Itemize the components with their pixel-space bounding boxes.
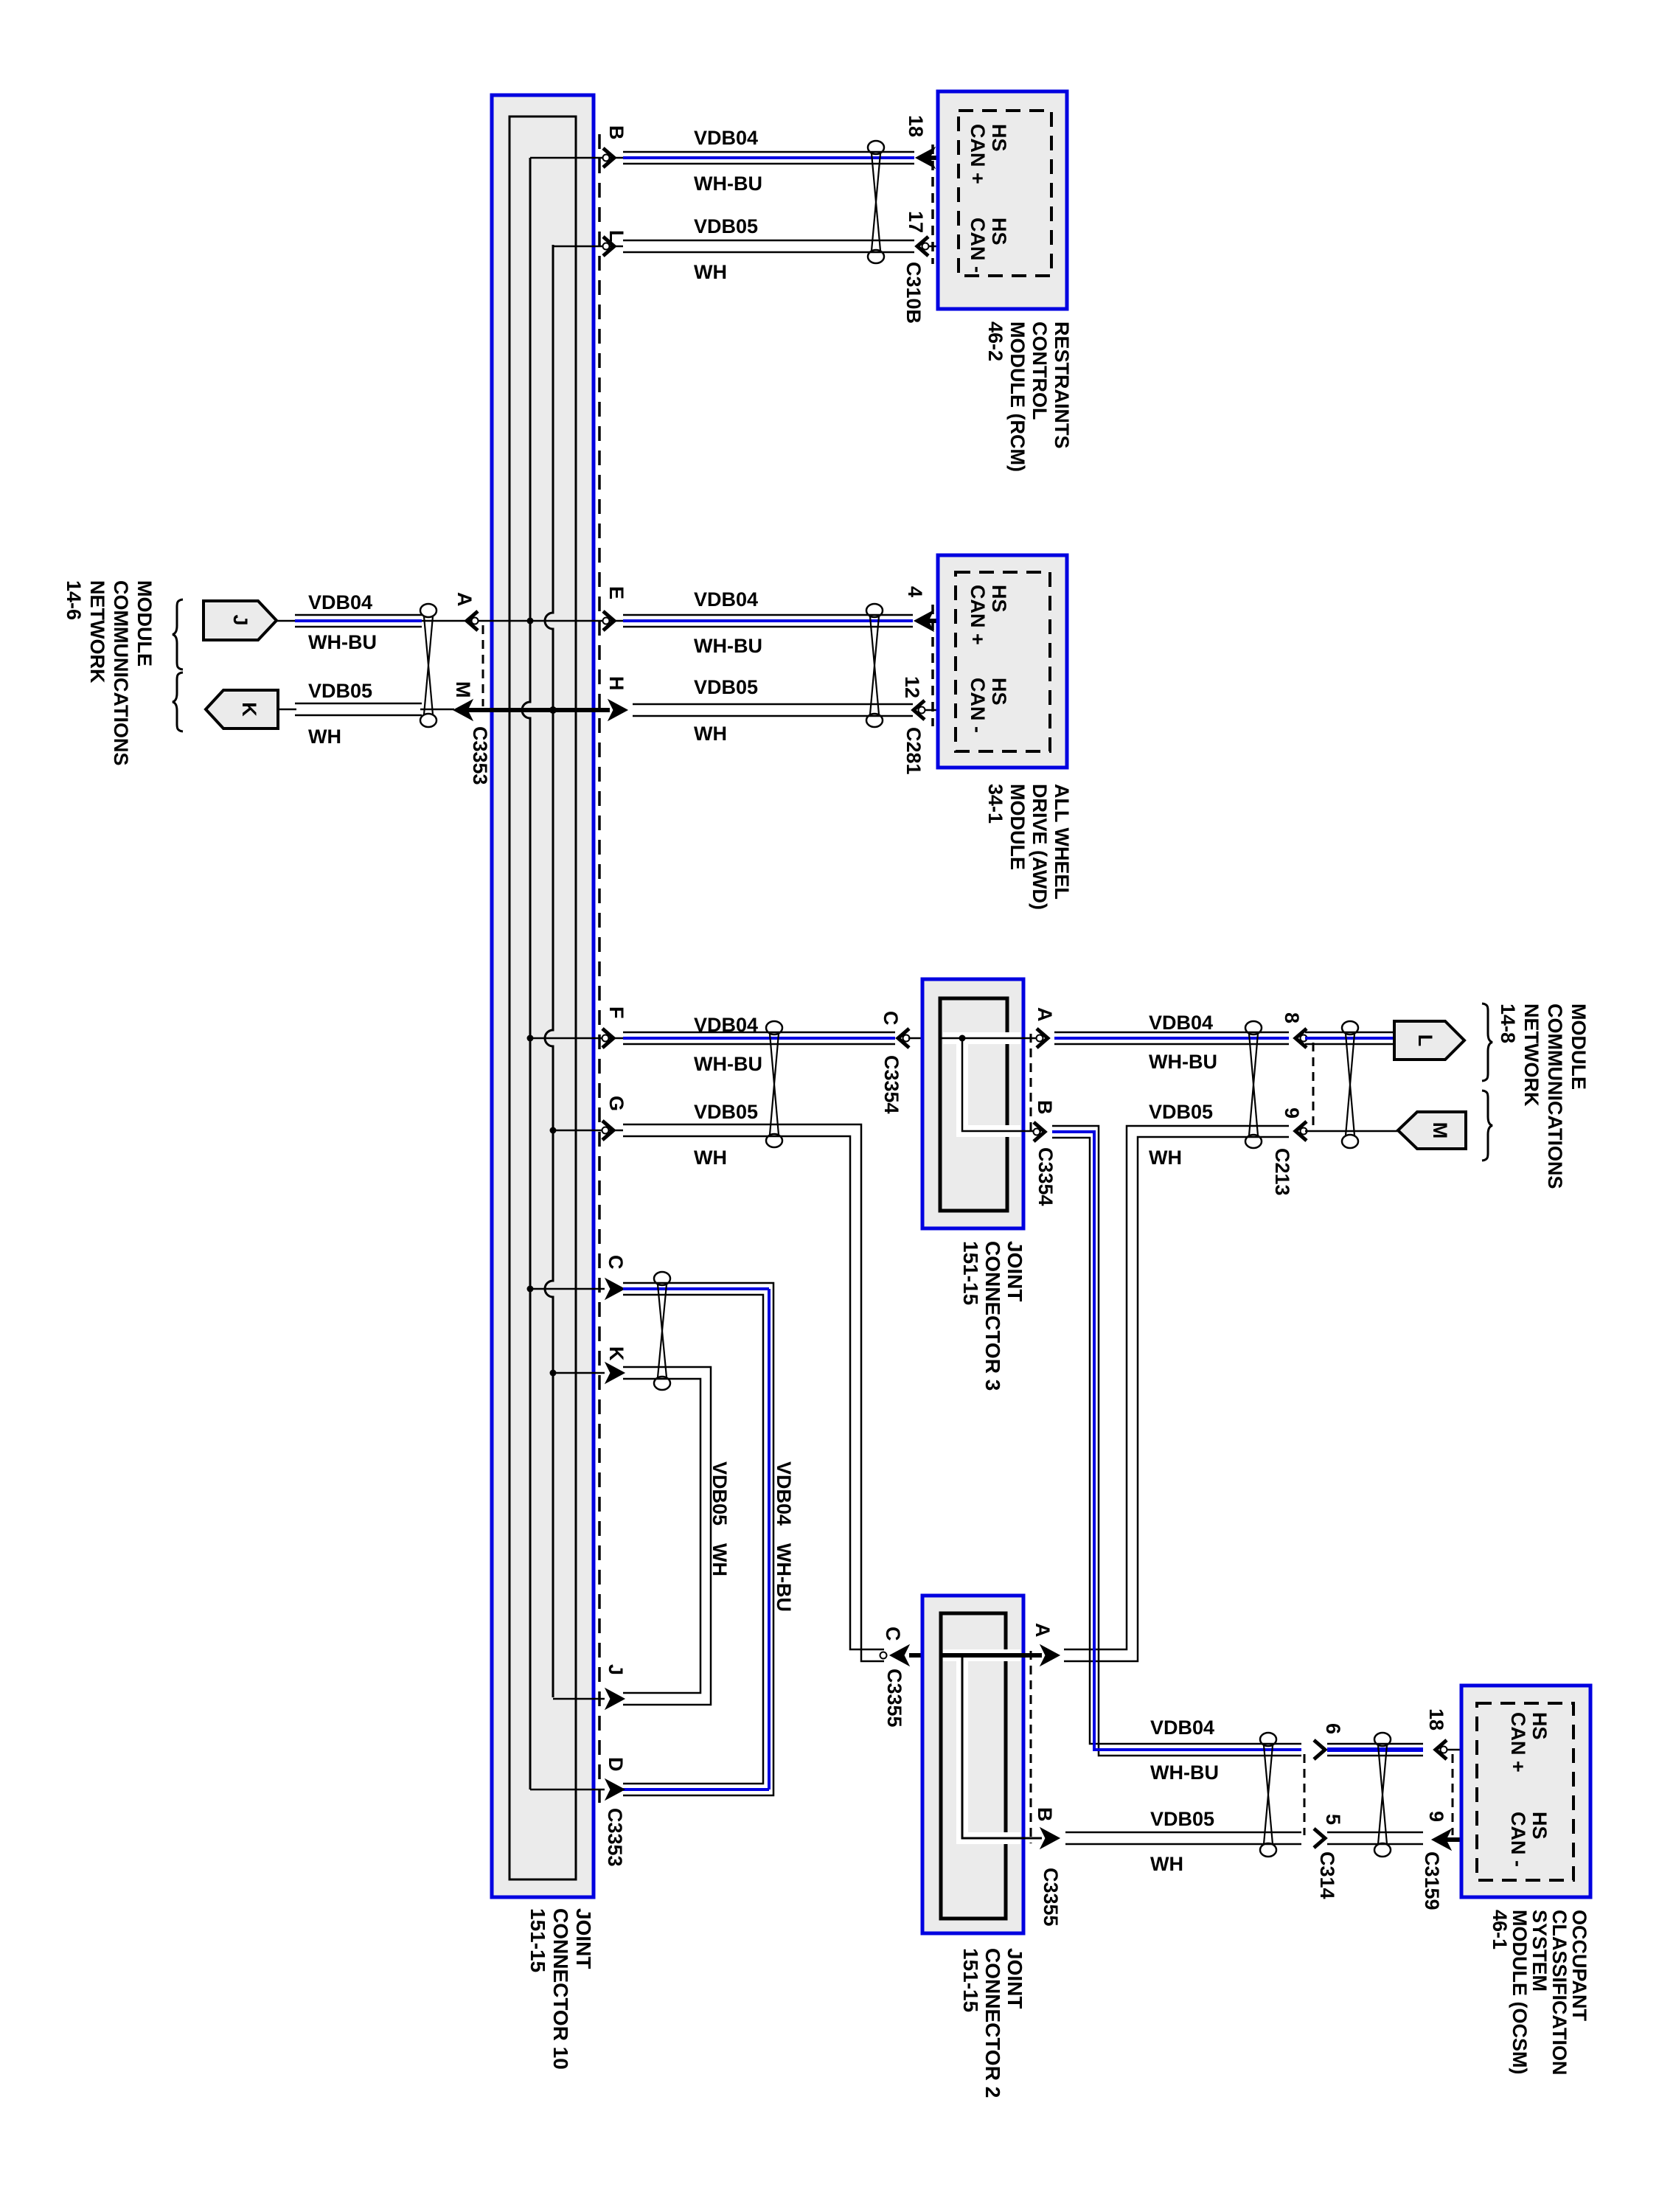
svg-text:B: B [605, 125, 627, 140]
svg-text:WH: WH [308, 726, 341, 748]
svg-text:C213: C213 [1271, 1148, 1293, 1196]
brace row J [173, 599, 183, 669]
svg-text:HS: HS [988, 218, 1010, 246]
svg-text:HS: HS [1528, 1812, 1551, 1840]
svg-text:46-1: 46-1 [1489, 1910, 1511, 1950]
wire VDB04 WH-BU pair C314 to OCSM pin 18 with heavy blue [1327, 1743, 1423, 1745]
svg-text:VDB04: VDB04 [773, 1461, 795, 1526]
joint connector 2 box [922, 1596, 1023, 1933]
JC3 internal bus white casing [943, 1032, 1020, 1044]
junction dot bus VDB05 x wire G [550, 1127, 557, 1134]
svg-text:C3354: C3354 [880, 1055, 902, 1114]
OCSM pin 9 arrow [1432, 1829, 1451, 1850]
svg-text:WH: WH [1149, 1147, 1182, 1169]
pin L chevron [603, 237, 614, 256]
wire from flag J [276, 620, 623, 622]
svg-text:HS: HS [988, 678, 1010, 706]
pin B chevron [603, 148, 614, 167]
connector C3355 dashed boundary right [1030, 1651, 1032, 1843]
svg-text:COMMUNICATIONS: COMMUNICATIONS [110, 580, 132, 765]
svg-text:WH-BU: WH-BU [1150, 1761, 1219, 1784]
svg-text:F: F [605, 1006, 627, 1019]
RCM pin 17 chevron [917, 237, 928, 256]
RCM pin 18 arrow [916, 147, 935, 168]
JC3 pin B chevron [1034, 1122, 1045, 1141]
svg-text:K: K [605, 1346, 627, 1361]
bus wire VDB04 (vertical, hops VDB05 wires) [522, 158, 530, 1790]
svg-text:34-1: 34-1 [984, 784, 1006, 824]
svg-text:HS: HS [1528, 1712, 1551, 1740]
joint connector 3 inner bar [940, 998, 1007, 1211]
svg-text:CLASSIFICATION: CLASSIFICATION [1548, 1910, 1571, 2076]
svg-text:12: 12 [901, 676, 923, 698]
svg-text:VDB04: VDB04 [1150, 1717, 1214, 1739]
pin F chevron [602, 1029, 613, 1048]
JC3 pin C chevron [898, 1029, 909, 1048]
svg-text:18: 18 [905, 115, 927, 137]
wire VDB04 bus pin F to JC3 [530, 1037, 623, 1040]
wire VDB05 bus pin L to RCM (single lead) [553, 246, 623, 248]
twisted pair symbol rows C/K [654, 1272, 670, 1285]
wire VDB04 WH-BU pair bus pin E to AWD pin 4 [623, 614, 913, 616]
svg-text:VDB04: VDB04 [694, 127, 758, 149]
pin D arrow at bus [530, 1789, 605, 1791]
twisted pair symbol rows J/K [420, 604, 437, 617]
wire VDB05 WH pair bus pin H to AWD pin 12 [633, 703, 913, 706]
svg-text:VDB05: VDB05 [308, 680, 372, 702]
svg-text:WH: WH [694, 261, 727, 283]
AWD connector dashed outline [956, 572, 1050, 751]
svg-text:5: 5 [1322, 1814, 1344, 1825]
wire VDB05 WH loop K to J [623, 1367, 711, 1705]
svg-text:C3353: C3353 [604, 1808, 626, 1867]
svg-text:OCCUPANT: OCCUPANT [1568, 1910, 1590, 2021]
svg-text:C3354: C3354 [1034, 1147, 1057, 1206]
C213 pin 8 chevron [1295, 1029, 1307, 1048]
joint connector 2 inner bar [941, 1613, 1006, 1919]
svg-text:C3355: C3355 [883, 1669, 905, 1728]
C314 pin 5 chevron [1314, 1829, 1325, 1848]
svg-text:RESTRAINTS: RESTRAINTS [1051, 321, 1073, 449]
svg-text:WH-BU: WH-BU [694, 635, 762, 657]
C314 pin 6 chevron [1314, 1740, 1325, 1759]
pin J arrow at bus [553, 1698, 605, 1700]
AWD pin 4 arrow [914, 611, 933, 631]
pin M arrow at C3353 [453, 700, 473, 720]
svg-text:C: C [605, 1255, 627, 1270]
connector C3353 dashed boundary (bus right side) [598, 134, 601, 1803]
svg-text:MODULE (RCM): MODULE (RCM) [1006, 321, 1029, 472]
brace row M [1482, 1091, 1492, 1161]
wire from flag K [276, 709, 296, 711]
OCSM connector dashed outline [1477, 1703, 1573, 1880]
wire VDB05 WH pair JC2 B to C314 pin 5 [1065, 1832, 1301, 1834]
svg-text:WH-BU: WH-BU [694, 1053, 762, 1075]
svg-text:J: J [605, 1664, 627, 1675]
wire VDB05 bus pin G lead [553, 1130, 623, 1132]
svg-text:K: K [238, 702, 260, 717]
svg-text:17: 17 [905, 211, 927, 233]
wire VDB04 WH-BU pair bus F to JC3 C [623, 1032, 895, 1034]
svg-text:MODULE: MODULE [1568, 1004, 1590, 1090]
wire single C213 to flag M [1305, 1130, 1398, 1133]
svg-text:B: B [1034, 1100, 1056, 1115]
wire VDB04 WH-BU pair flag J to C3353 [295, 614, 422, 616]
svg-text:J: J [229, 614, 251, 625]
svg-text:CONNECTOR 3: CONNECTOR 3 [981, 1241, 1004, 1391]
svg-text:VDB05: VDB05 [1149, 1101, 1213, 1123]
svg-text:L: L [1414, 1034, 1436, 1047]
svg-text:M: M [452, 681, 474, 698]
JC3 internal junction dot [959, 1035, 966, 1042]
pin E chevron [603, 611, 614, 630]
twisted pair symbol rows E/H [866, 604, 883, 617]
svg-text:C281: C281 [902, 727, 925, 775]
svg-text:B: B [1034, 1807, 1056, 1822]
junction dot bus VDB04 x wire A-E [527, 618, 534, 625]
wire VDB05 WH pair flag K to C3353 [295, 703, 422, 705]
svg-text:H: H [605, 676, 627, 691]
svg-text:CAN -: CAN - [967, 218, 989, 273]
svg-text:9: 9 [1281, 1107, 1303, 1119]
svg-text:4: 4 [904, 586, 926, 597]
svg-text:A: A [453, 592, 476, 607]
svg-text:G: G [605, 1096, 627, 1111]
svg-text:C: C [880, 1011, 902, 1026]
pin H arrow [608, 700, 627, 720]
twisted pair symbol rows 18/9 right [1374, 1733, 1391, 1746]
svg-text:M: M [1429, 1122, 1451, 1139]
svg-text:A: A [1034, 1007, 1056, 1022]
brace row K [173, 672, 183, 731]
twisted pair symbol rows A/M left of C213 [1245, 1021, 1262, 1034]
pin A chevron at C3353 [467, 611, 478, 630]
svg-text:VDB05: VDB05 [694, 215, 758, 237]
wire VDB05 thick through bus M to H [467, 708, 610, 712]
junction dot bus VDB05 x wire M-H [549, 706, 557, 714]
JC3 internal bus wire [942, 1037, 1043, 1040]
network flag M [1398, 1112, 1466, 1149]
svg-text:C314: C314 [1316, 1851, 1338, 1899]
restraints control module box [938, 91, 1067, 309]
svg-text:CAN +: CAN + [1507, 1712, 1529, 1773]
AWD pin 12 chevron [914, 700, 925, 720]
network flag J [204, 601, 276, 640]
junction dot bus VDB04 x wire F [527, 1035, 534, 1042]
twisted pair symbol right of C213 [1342, 1021, 1358, 1034]
svg-text:WH-BU: WH-BU [694, 173, 762, 195]
JC2 pin C arrow [880, 1652, 887, 1659]
joint connector 3 box [922, 979, 1023, 1228]
svg-text:NETWORK: NETWORK [1520, 1004, 1543, 1107]
pin G chevron [602, 1121, 613, 1140]
twisted pair symbol rows F/G [766, 1021, 782, 1034]
svg-text:CAN -: CAN - [967, 678, 989, 733]
network flag L [1394, 1021, 1464, 1060]
svg-text:JOINT: JOINT [572, 1908, 595, 1969]
svg-text:151-15: 151-15 [959, 1241, 982, 1305]
OCSM pin 18 chevron [1436, 1740, 1447, 1759]
pin K arrow at bus [553, 1372, 605, 1374]
svg-text:JOINT: JOINT [1004, 1948, 1026, 2008]
svg-text:CONNECTOR 2: CONNECTOR 2 [981, 1948, 1004, 2098]
JC2 pin A arrow [1040, 1645, 1060, 1666]
svg-text:6: 6 [1322, 1723, 1344, 1734]
svg-text:VDB05: VDB05 [694, 1101, 758, 1123]
svg-text:8: 8 [1281, 1012, 1303, 1023]
wire VDB05 WH pair bus G down to JC2 pin C [623, 1124, 884, 1661]
wire VDB05 WH pair to RCM pin 17 [623, 240, 914, 242]
svg-text:VDB04: VDB04 [694, 588, 758, 611]
svg-text:C310B: C310B [902, 262, 925, 324]
svg-text:151-15: 151-15 [959, 1948, 982, 2012]
svg-text:CAN +: CAN + [967, 124, 989, 184]
svg-text:VDB04: VDB04 [308, 591, 372, 613]
C213 pin 9 chevron [1295, 1121, 1307, 1141]
svg-text:C3355: C3355 [1040, 1868, 1062, 1927]
svg-text:HS: HS [988, 124, 1010, 152]
svg-text:VDB05: VDB05 [694, 676, 758, 698]
svg-text:E: E [605, 586, 627, 599]
wire VDB05 WH pair JC2 A up to C213 pin 9 [1064, 1126, 1289, 1649]
svg-text:C3353: C3353 [469, 726, 491, 785]
connector C314 dashed line [1304, 1754, 1306, 1835]
svg-text:WH: WH [709, 1543, 731, 1576]
svg-text:HS: HS [988, 585, 1010, 613]
brace row L [1482, 1004, 1492, 1081]
svg-text:WH: WH [694, 723, 727, 745]
svg-text:WH: WH [1150, 1853, 1183, 1875]
all wheel drive module box [938, 555, 1067, 768]
svg-text:CAN +: CAN + [967, 585, 989, 645]
svg-text:WH-BU: WH-BU [1149, 1051, 1217, 1073]
connector C281 dashed line [931, 605, 934, 726]
JC2 internal bus wire thick [942, 1653, 1042, 1658]
svg-text:VDB04: VDB04 [1149, 1012, 1213, 1034]
wire VDB04 WH-BU pair JC3 A to C213 pin 8 [1054, 1032, 1289, 1034]
joint connector 10 box [492, 95, 594, 1897]
svg-text:A: A [1032, 1623, 1054, 1638]
svg-text:ALL WHEEL: ALL WHEEL [1051, 784, 1073, 900]
connector C310B dashed line [931, 145, 934, 264]
wire VDB04 WH-BU pair to RCM pin 18 [623, 151, 914, 153]
connector C3159 dashed line [1452, 1754, 1454, 1835]
svg-text:14-8: 14-8 [1497, 1004, 1519, 1043]
svg-text:14-6: 14-6 [63, 580, 85, 620]
wire VDB05 WH pair C314 to OCSM pin 9 [1327, 1832, 1423, 1834]
svg-text:D: D [605, 1757, 627, 1772]
svg-text:VDB05: VDB05 [1150, 1808, 1214, 1830]
thick lead into JC2 from pin C [909, 1653, 942, 1658]
svg-text:JOINT: JOINT [1004, 1241, 1026, 1301]
twisted pair symbol rows B/L [868, 141, 884, 154]
svg-text:NETWORK: NETWORK [86, 580, 108, 684]
svg-text:DRIVE (AWD): DRIVE (AWD) [1029, 784, 1051, 910]
wire VDB04 WH-BU pair JC3 B down to OCSM pin 18 [1052, 1126, 1301, 1756]
joint connector 10 inner bar [509, 116, 576, 1879]
JC3 pin A chevron [1037, 1029, 1048, 1048]
svg-text:151-15: 151-15 [526, 1908, 549, 1972]
occupant classification system module box [1461, 1686, 1590, 1897]
svg-text:COMMUNICATIONS: COMMUNICATIONS [1544, 1004, 1566, 1189]
svg-text:VDB04: VDB04 [694, 1014, 758, 1036]
pin C arrow at bus [530, 1288, 605, 1290]
network flag K [206, 690, 278, 728]
connector C3354 dashed boundary right [1030, 1034, 1032, 1134]
svg-text:MODULE: MODULE [133, 580, 156, 667]
RCM connector dashed outline [959, 111, 1051, 276]
wire VDB04 WH-BU loop C to D [623, 1283, 773, 1795]
svg-text:CONNECTOR 10: CONNECTOR 10 [549, 1908, 572, 2070]
connector C3353 dashed boundary (bus left side) [482, 625, 484, 706]
svg-text:VDB05: VDB05 [709, 1461, 731, 1526]
svg-text:C3159: C3159 [1421, 1851, 1443, 1910]
JC2 internal bus white casing [943, 1649, 1020, 1661]
svg-text:46-2: 46-2 [984, 321, 1006, 361]
svg-text:MODULE: MODULE [1006, 784, 1029, 870]
wire VDB04 bus pin B to RCM (single lead) [530, 157, 623, 159]
JC2 pin B arrow [1040, 1828, 1060, 1848]
svg-text:CAN -: CAN - [1507, 1812, 1529, 1867]
svg-text:WH: WH [694, 1147, 727, 1169]
svg-text:CONTROL: CONTROL [1029, 321, 1051, 420]
twisted pair symbol rows 18/9 left [1260, 1733, 1276, 1746]
svg-text:WH-BU: WH-BU [773, 1543, 795, 1612]
svg-text:18: 18 [1425, 1708, 1447, 1731]
svg-text:MODULE (OCSM): MODULE (OCSM) [1509, 1910, 1531, 2074]
svg-text:WH-BU: WH-BU [308, 631, 377, 653]
svg-text:C: C [882, 1627, 904, 1641]
connector C213 dashed line [1312, 1043, 1315, 1127]
bus wire VDB05 (vertical, hops VDB04 wires) [545, 245, 553, 1697]
svg-text:SYSTEM: SYSTEM [1528, 1910, 1551, 1992]
svg-text:9: 9 [1425, 1811, 1447, 1822]
wire VDB04 WH-BU pair C213 to flag L [1305, 1032, 1394, 1034]
